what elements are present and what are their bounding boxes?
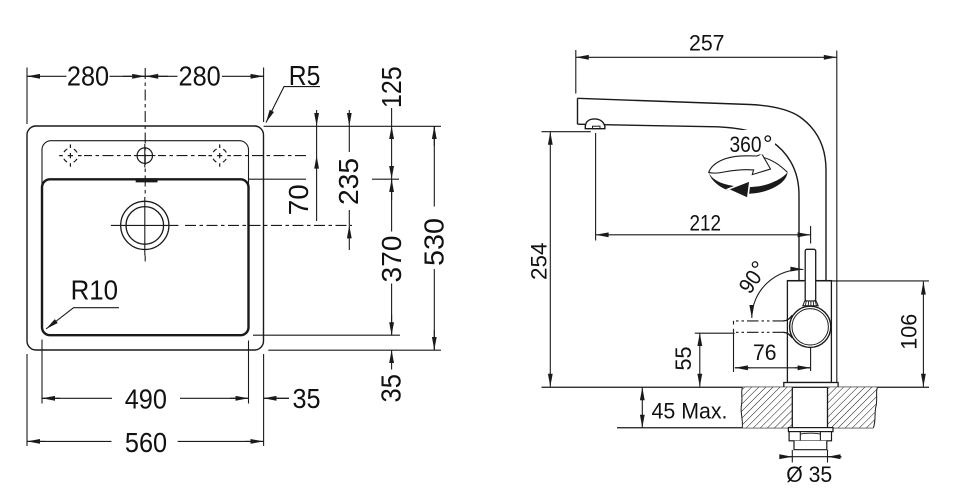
- svg-text:106: 106: [896, 314, 921, 350]
- svg-text:370: 370: [376, 236, 407, 283]
- svg-text:45 Max.: 45 Max.: [652, 399, 728, 424]
- svg-text:530: 530: [419, 218, 450, 266]
- svg-text:257: 257: [689, 31, 725, 56]
- svg-text:490: 490: [125, 384, 167, 415]
- svg-text:360°: 360°: [730, 131, 773, 158]
- svg-text:R5: R5: [289, 60, 321, 91]
- svg-text:70: 70: [283, 184, 314, 215]
- svg-text:212: 212: [690, 211, 722, 236]
- svg-text:254: 254: [527, 243, 552, 281]
- svg-text:35: 35: [376, 374, 407, 403]
- svg-text:Ø 35: Ø 35: [786, 462, 832, 487]
- svg-text:235: 235: [333, 158, 364, 205]
- svg-text:55: 55: [671, 347, 696, 371]
- svg-text:R10: R10: [71, 275, 119, 306]
- svg-text:280: 280: [179, 61, 221, 92]
- svg-text:560: 560: [125, 427, 167, 458]
- svg-text:76: 76: [753, 340, 777, 365]
- svg-text:125: 125: [376, 66, 407, 108]
- svg-text:280: 280: [67, 61, 109, 92]
- svg-text:90°: 90°: [733, 256, 774, 298]
- svg-text:35: 35: [293, 383, 321, 414]
